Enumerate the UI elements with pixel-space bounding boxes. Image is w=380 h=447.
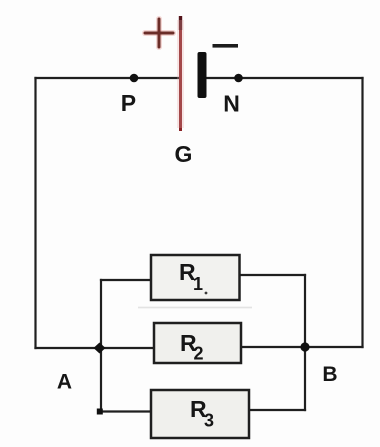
wire bottom-left horizontal to node A and R2 <box>36 347 155 349</box>
node N dot <box>234 74 243 83</box>
wire left vertical <box>34 78 36 348</box>
resistor R2 <box>154 323 241 364</box>
svg-text:B: B <box>322 363 337 386</box>
junction dot lower-left <box>97 409 103 415</box>
node B dot <box>300 342 309 351</box>
resistor R3 <box>151 390 249 438</box>
ghost line artifact below R1 <box>138 307 252 309</box>
svg-text:P: P <box>121 90 136 116</box>
battery minus sign <box>213 44 239 48</box>
svg-text:2: 2 <box>194 344 204 364</box>
wire left branch vertical <box>100 280 102 412</box>
wire right vertical <box>361 78 363 347</box>
wire R1 right <box>240 274 306 276</box>
node P dot <box>130 74 139 83</box>
node A dot <box>94 343 106 354</box>
svg-text:G: G <box>175 141 193 167</box>
wire node B row to right vertical <box>241 346 363 348</box>
svg-text:N: N <box>223 91 240 117</box>
wire R1 left <box>101 279 151 281</box>
battery G negative plate (short thick black) <box>198 52 207 98</box>
svg-text:3: 3 <box>204 411 214 431</box>
resistor R1 <box>151 255 240 300</box>
battery G positive plate (long red) <box>179 16 182 131</box>
wire top-left from left corner to battery positive plate <box>36 77 180 79</box>
wire R3 left <box>101 410 151 412</box>
battery plus sign <box>145 19 173 47</box>
wire R3 right <box>249 409 305 411</box>
svg-text:A: A <box>57 371 72 394</box>
svg-text:1: 1 <box>193 274 203 294</box>
wire right branch vertical <box>304 275 306 410</box>
wire top-right from battery negative plate to right corner <box>206 77 363 79</box>
